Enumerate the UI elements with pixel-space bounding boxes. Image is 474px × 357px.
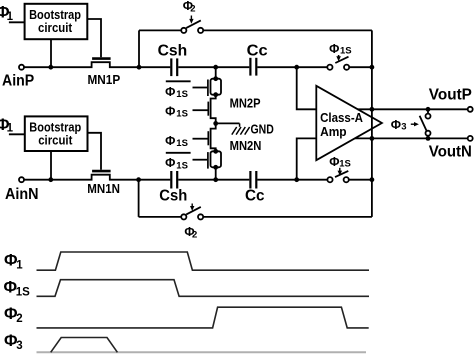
label Cc bottom [245,188,265,205]
switch S2 phi1S (top feedback) [297,57,372,70]
node phi2/phi1S right junction on output rail [370,65,375,70]
terminal VoutN [468,136,473,141]
switch S5 phi3 (between VoutP and VoutN) [420,107,431,141]
wire U2 right lead to MN1N gate [88,133,102,170]
svg-text:1: 1 [7,123,14,135]
label phi2 (timing) [4,305,23,325]
label phi1S-bar (MN2P upper gate) [165,81,191,100]
svg-text:Φ: Φ [165,156,175,170]
label Csh top [158,43,188,60]
svg-text:Csh: Csh [159,188,187,205]
svg-text:Φ: Φ [391,118,401,132]
ground GND symbol [232,123,250,134]
svg-text:MN2N: MN2N [230,139,262,153]
op-amp U3 Class-A Amp [316,86,382,160]
svg-text:2: 2 [16,313,22,325]
svg-text:AinP: AinP [2,72,34,89]
waveform phi2 [37,307,369,328]
capacitor CcN (bottom) [250,171,296,189]
svg-text:Φ: Φ [165,85,175,99]
transistor MN2N lower (box switch) [193,149,222,170]
wire VoutN from amp edge [355,137,468,139]
wire output rail vertical [371,30,373,217]
svg-text:AinN: AinN [5,186,39,203]
junction on AinN rail at U2 bottom lead [48,177,53,182]
label Csh bottom [159,188,187,205]
switch S4 phi1S (bottom feedback) [297,171,372,182]
terminal AinN [19,177,24,182]
svg-text:Φ: Φ [165,134,175,148]
label phi1S (MN2N upper gate) [165,134,188,149]
svg-text:1S: 1S [176,109,188,120]
node VoutN on output rail [370,136,375,141]
bootstrap circuit U1 (top) [25,4,88,39]
node top of MN2P chain [213,65,218,70]
terminal VoutP [468,107,473,112]
svg-text:1S: 1S [176,138,188,149]
node phi1 bottom label [0,116,14,135]
wire U2 bottom lead to AinN rail [50,151,52,180]
capacitor CcP (top) [250,58,296,76]
label phi1S-bar (MN2N lower gate) [165,153,191,172]
node phi2/phi1S bottom-right junction on output rail [370,177,375,182]
svg-text:3: 3 [401,122,406,133]
svg-text:1: 1 [7,11,14,23]
svg-text:MN1P: MN1P [88,73,121,87]
wire node A' down to phi2 bypass [138,181,140,217]
label phi3 for S5 with arrow [391,118,419,133]
wire node A up to phi2 bypass [138,30,140,66]
svg-text:MN1N: MN1N [87,182,120,196]
svg-text:Csh: Csh [158,43,188,60]
svg-text:2: 2 [190,4,195,15]
junction on AinP rail at U1 bottom lead [48,65,53,70]
label phi3 (timing) [4,332,23,352]
label phi1S (MN2P lower gate) [165,105,188,120]
svg-text:3: 3 [16,340,22,352]
wire U1 bottom lead to AinP rail [50,39,52,67]
waveform phi3 pulse [51,338,118,353]
svg-text:1S: 1S [176,89,188,100]
waveform phi3 baseline (gray) [37,351,367,353]
svg-text:GND: GND [251,123,274,137]
switch S3 phi2 (bottom bypass) [139,207,372,220]
svg-text:1S: 1S [340,46,352,57]
svg-text:1S: 1S [16,286,30,298]
wire chain node to CcN [216,179,250,181]
svg-text:1S: 1S [339,158,351,169]
svg-text:2: 2 [192,229,197,240]
wire chain bottom to AinN rail [215,167,217,179]
svg-text:VoutN: VoutN [429,144,472,161]
switch S1 phi2 (top bypass) [139,20,372,33]
svg-text:VoutP: VoutP [429,86,472,103]
capacitor CshN (bottom) [171,171,214,189]
label phi1S for S2 with arrow [329,42,352,61]
transistor MN2P lower [193,95,216,124]
wire node B' up to amp negative input [297,138,317,179]
wire U1 right lead to MN1P gate [87,19,101,57]
node B' junction (amp- input node) [294,177,299,182]
wire phi1 to bootstrap box 1 [9,21,25,23]
wire AinN rail with MN1N channel hump [24,175,170,180]
terminal AinP [19,65,24,70]
transistor MN2P upper (box switch) [193,76,222,97]
label phi2 for S3 with arrow [184,204,197,241]
node A junction (AinP side) [137,65,142,70]
svg-text:1: 1 [16,260,23,272]
svg-text:Cc: Cc [247,43,268,60]
label Cc top [247,43,268,60]
node VoutP on output rail [370,107,375,112]
wire chain node to CcP [216,66,250,68]
label phi1S (timing) [4,278,31,298]
label MN2N [230,139,262,153]
GND junction on chain [213,121,218,126]
wire to GND [216,122,240,124]
svg-text:Amp: Amp [320,125,347,139]
label phi1S for S4 with arrow [329,155,351,176]
svg-text:Φ: Φ [329,155,339,169]
node phi1 top label [0,4,14,24]
node bottom of MN2N chain [213,177,218,182]
waveform phi1S [37,280,370,297]
svg-text:Cc: Cc [245,188,265,205]
wire VoutP from amp edge [358,108,468,110]
label GND [251,123,274,137]
svg-text:circuit: circuit [38,133,73,147]
transistor MN2N upper [193,123,216,151]
node A' junction (AinN side) [136,177,141,182]
waveform phi1 [37,252,370,270]
transistor MN1P gate plate [92,57,111,60]
wire phi1 to bootstrap box 2 [9,133,25,135]
label phi2 for S1 with arrow [183,0,196,24]
svg-text:Φ: Φ [165,105,175,119]
svg-text:Class-A: Class-A [320,111,363,125]
svg-text:1S: 1S [176,160,188,171]
label phi1 (timing) [4,252,23,272]
svg-text:Φ: Φ [329,42,339,56]
bootstrap circuit U2 (bottom) [25,116,88,151]
transistor MN1N gate plate [92,170,111,173]
svg-text:MN2P: MN2P [230,96,261,110]
capacitor CshP (top) [171,58,214,76]
wire top rail down to MN2P upper switch [215,67,217,79]
node B junction (amp+ input node) [294,65,299,70]
svg-text:circuit: circuit [38,21,73,35]
wire AinP rail with MN1P channel hump [24,62,170,67]
wire node B down to amp positive input [297,67,317,109]
label MN2P [230,96,261,110]
